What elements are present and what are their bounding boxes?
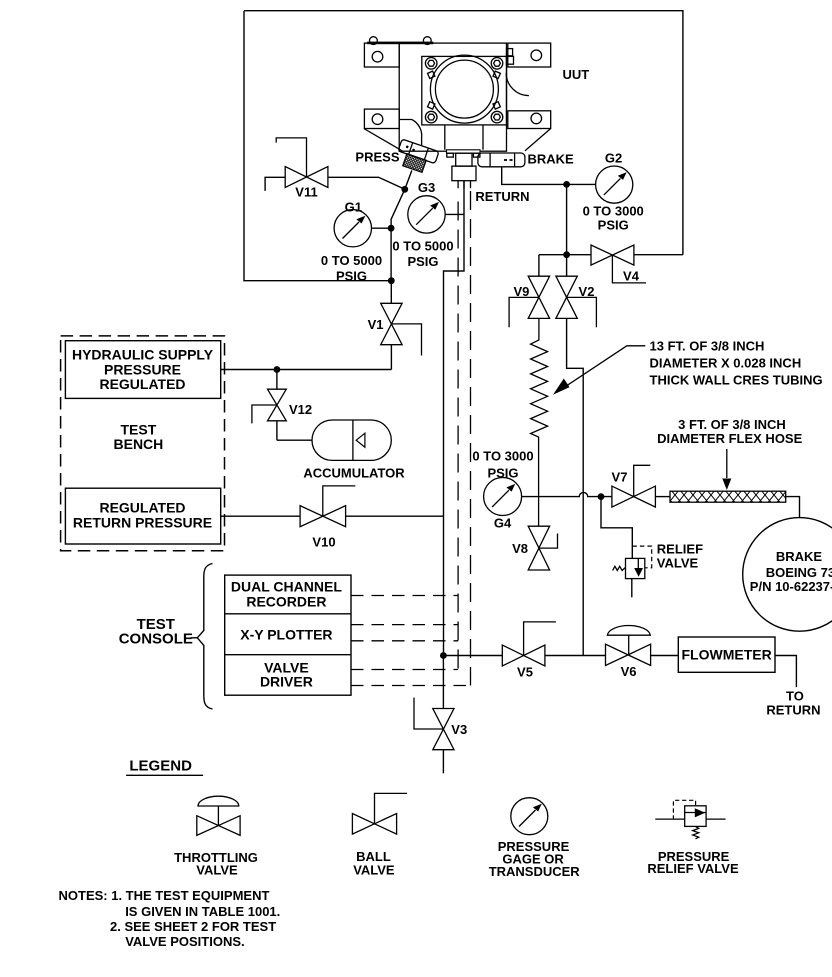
wire V7 to flex hose	[655, 496, 670, 498]
gauge G3	[408, 196, 445, 233]
test console boxes	[225, 575, 351, 695]
svg-text:V2: V2	[579, 284, 595, 299]
test bench dashed box	[61, 336, 225, 551]
svg-text:PSIG: PSIG	[407, 254, 438, 269]
wire G4 line with hop over tubing line	[522, 492, 612, 496]
svg-text:PSIG: PSIG	[598, 217, 629, 232]
dashed signal line driver b	[351, 685, 471, 687]
wire brake port to G2 junction	[502, 167, 567, 185]
valve V3 (ball)	[414, 656, 454, 774]
svg-text:RELIEF: RELIEF	[657, 542, 703, 557]
node V7 relief junction	[598, 493, 605, 500]
regulated return pressure box	[65, 488, 220, 544]
svg-text:RELIEF VALVE: RELIEF VALVE	[647, 861, 739, 876]
wire V2 riser	[566, 255, 568, 277]
svg-text:NOTES: 1. THE TEST EQUIPMENT: NOTES: 1. THE TEST EQUIPMENT	[59, 888, 270, 903]
dashed signal riser b	[470, 191, 472, 686]
flex hose	[670, 491, 786, 502]
dashed signal line plotter a	[351, 624, 458, 626]
gauge G1	[334, 210, 371, 247]
svg-text:VALVE: VALVE	[353, 862, 395, 877]
node V4 line junction	[563, 251, 570, 258]
wire V11 inlet with open end	[265, 177, 285, 191]
valve V5 (ball)	[502, 622, 556, 666]
svg-text:2. SEE SHEET 2 FOR TEST: 2. SEE SHEET 2 FOR TEST	[110, 919, 276, 934]
svg-text:REGULATED: REGULATED	[99, 500, 185, 516]
node V12 junction	[274, 366, 281, 373]
dashed signal line plotter b	[351, 640, 458, 642]
svg-text:FLOWMETER: FLOWMETER	[681, 647, 771, 663]
svg-text:DRIVER: DRIVER	[260, 674, 313, 690]
legend title	[126, 757, 203, 775]
svg-text:V4: V4	[623, 268, 640, 283]
svg-text:VALVE: VALVE	[657, 556, 699, 571]
svg-text:RETURN: RETURN	[475, 189, 529, 204]
svg-text:V6: V6	[621, 664, 637, 679]
svg-text:BRAKE: BRAKE	[528, 151, 575, 166]
callout 3 ft flex hose	[722, 449, 731, 490]
valve V8 (ball bleed)	[528, 526, 557, 570]
legend pressure gage symbol	[511, 798, 548, 835]
svg-text:REGULATED: REGULATED	[99, 376, 185, 392]
wire return port stubs	[458, 181, 470, 189]
svg-text:X-Y PLOTTER: X-Y PLOTTER	[240, 627, 332, 643]
svg-text:DIAMETER FLEX HOSE: DIAMETER FLEX HOSE	[657, 431, 803, 446]
svg-text:V1: V1	[368, 317, 384, 332]
wire hose to brake	[786, 497, 800, 518]
svg-text:BENCH: BENCH	[114, 436, 164, 452]
svg-text:0 TO 3000: 0 TO 3000	[472, 448, 533, 463]
node G1 junction	[388, 225, 395, 232]
svg-text:BRAKE: BRAKE	[776, 549, 823, 564]
svg-text:ACCUMULATOR: ACCUMULATOR	[303, 465, 405, 480]
UUT corner bolt 1	[425, 58, 437, 70]
svg-text:G4: G4	[494, 515, 512, 530]
hydraulic supply pressure box	[65, 341, 220, 399]
UUT body plate	[364, 37, 551, 152]
node supply junction on box bottom	[388, 277, 395, 284]
svg-text:V5: V5	[517, 664, 533, 679]
svg-text:V7: V7	[612, 469, 628, 484]
svg-text:0 TO 5000: 0 TO 5000	[321, 253, 382, 268]
svg-text:TO: TO	[786, 689, 804, 704]
legend pressure relief valve symbol	[655, 800, 725, 839]
wire V9 riser	[538, 255, 540, 277]
wire G1 to press line	[372, 227, 392, 229]
svg-text:G3: G3	[418, 180, 435, 195]
legend throttling valve symbol	[197, 796, 240, 835]
callout 13 ft cres tubing	[553, 346, 645, 395]
svg-text:IS GIVEN IN TABLE 1001.: IS GIVEN IN TABLE 1001.	[125, 904, 280, 919]
UUT brake fitting	[478, 153, 525, 167]
svg-text:V8: V8	[512, 541, 528, 556]
svg-text:V12: V12	[289, 402, 312, 417]
svg-text:DUAL CHANNEL: DUAL CHANNEL	[231, 579, 342, 595]
svg-text:DIAMETER X 0.028 INCH: DIAMETER X 0.028 INCH	[650, 356, 802, 371]
UUT corner bolt 2	[491, 58, 503, 70]
valve V4 (ball)	[591, 245, 646, 283]
svg-text:V3: V3	[451, 722, 467, 737]
wire press-line from PRESS fitting to V1	[391, 171, 412, 281]
valve V9 (ball)	[509, 276, 549, 327]
valve V12 (ball)	[252, 370, 286, 441]
valve V1 (ball)	[381, 281, 422, 370]
dashed signal riser a	[457, 202, 459, 670]
UUT corner bolt 4	[491, 111, 503, 123]
svg-text:3 FT. OF 3/8 INCH: 3 FT. OF 3/8 INCH	[678, 417, 786, 432]
node brake G2 junction	[563, 181, 570, 188]
svg-text:0 TO 3000: 0 TO 3000	[583, 203, 644, 218]
svg-text:HYDRAULIC SUPPLY: HYDRAULIC SUPPLY	[72, 346, 214, 362]
valve V11 (ball)	[276, 138, 328, 188]
svg-text:RETURN PRESSURE: RETURN PRESSURE	[73, 514, 212, 530]
wire V11 to press junction	[328, 177, 405, 189]
brake assembly circle	[743, 518, 832, 632]
svg-text:V9: V9	[513, 284, 529, 299]
dashed signal line recorder	[351, 595, 458, 597]
pressure relief valve	[613, 546, 652, 597]
test console brace	[191, 564, 213, 710]
UUT neck and return port fitting	[445, 125, 483, 181]
valve V2 (ball)	[556, 276, 597, 327]
valve V7 (ball)	[612, 465, 656, 507]
wire cres tubing coil	[531, 318, 548, 526]
node V5 V3 junction	[440, 652, 447, 659]
notes	[59, 888, 281, 949]
dashed signal line driver a	[351, 669, 458, 671]
wire hydraulic supply line	[221, 369, 392, 371]
svg-text:PSIG: PSIG	[336, 268, 367, 283]
flowmeter box	[678, 637, 775, 672]
svg-text:RETURN: RETURN	[766, 703, 820, 718]
legend ball valve symbol	[352, 793, 407, 834]
UUT enclosure box	[244, 11, 683, 281]
UUT press fitting	[394, 139, 439, 175]
wire V2 down-line to V5/V6 line	[567, 318, 584, 655]
valve V6 (throttling)	[606, 626, 651, 666]
svg-text:CONSOLE: CONSOLE	[119, 631, 193, 648]
svg-text:TRANSDUCER: TRANSDUCER	[489, 864, 581, 879]
wire V4 line	[539, 254, 683, 256]
UUT face plate	[422, 55, 507, 125]
node press junction	[401, 186, 408, 193]
svg-text:V10: V10	[312, 534, 335, 549]
svg-text:RECORDER: RECORDER	[246, 593, 326, 609]
svg-text:P/N 10-62237-4: P/N 10-62237-4	[750, 579, 832, 594]
gauge G4	[484, 478, 522, 516]
gauge G2	[567, 166, 633, 203]
svg-text:BOEING 737: BOEING 737	[766, 565, 832, 580]
svg-text:13 FT. OF 3/8 INCH: 13 FT. OF 3/8 INCH	[650, 339, 765, 354]
wire relief valve branch	[601, 497, 632, 559]
svg-text:UUT: UUT	[563, 67, 590, 82]
svg-text:PRESSURE: PRESSURE	[104, 361, 181, 377]
svg-text:PSIG: PSIG	[487, 465, 518, 480]
svg-text:VALVE POSITIONS.: VALVE POSITIONS.	[125, 934, 244, 949]
svg-text:0 TO 5000: 0 TO 5000	[392, 238, 453, 253]
svg-text:PRESS: PRESS	[355, 149, 399, 164]
svg-text:V11: V11	[295, 185, 317, 200]
svg-text:G2: G2	[605, 151, 622, 166]
wire G3 to return line	[445, 213, 464, 215]
svg-text:VALVE: VALVE	[196, 862, 238, 877]
wire G2 junction down to V4 line	[566, 184, 568, 254]
wire V5 V6 flowmeter line	[443, 656, 796, 688]
accumulator	[277, 420, 391, 460]
svg-text:G1: G1	[345, 200, 362, 215]
wire regulated return line	[221, 515, 444, 517]
wire return main down-line	[444, 181, 465, 656]
svg-text:LEGEND: LEGEND	[129, 757, 192, 774]
svg-text:THICK WALL CRES TUBING: THICK WALL CRES TUBING	[650, 373, 823, 388]
valve V10 (ball)	[300, 486, 355, 527]
UUT corner bolt 3	[425, 111, 437, 123]
